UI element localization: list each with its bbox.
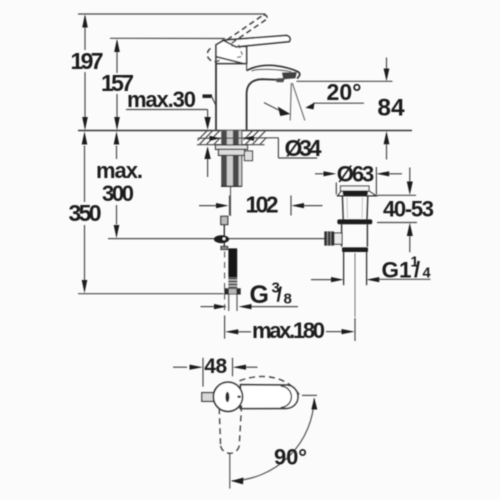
max.30 arrow below deck pointing up [204, 146, 210, 159]
stream angle arrow with tail [264, 103, 279, 110]
faucet handle pivot wedge [216, 40, 247, 63]
dimension 40-53 [377, 194, 416, 196]
20 deg arrow to stream [305, 103, 314, 110]
dimension G1 1/4 [311, 279, 331, 281]
svg-text:84: 84 [377, 95, 405, 122]
mounting nut [219, 149, 245, 155]
svg-text:max.30: max.30 [127, 87, 196, 112]
svg-text:40-53: 40-53 [383, 197, 434, 222]
svg-text:350: 350 [69, 200, 102, 226]
dashed cartridge hidden line [232, 45, 243, 58]
waste locknut [337, 219, 372, 224]
dimension 102 [199, 205, 217, 207]
reference line top (197 level) [78, 13, 266, 15]
dashed handle butt arc [207, 49, 219, 62]
faucet body right edge and spout underside [246, 64, 248, 71]
spout outlet reference line (84 top) [297, 80, 393, 82]
svg-text:90°: 90° [274, 445, 307, 470]
centerline below dashed handle [229, 454, 231, 489]
dimension diameter 34 leader [198, 137, 279, 140]
aerator [282, 72, 297, 79]
water stream lines [290, 83, 291, 121]
deck hatching left [198, 131, 208, 141]
svg-text:G: G [250, 281, 269, 309]
dimension 84 vertical line [386, 58, 388, 69]
dimension 197 vertical line [84, 16, 86, 50]
dimension diameter 63 [315, 173, 324, 175]
rod clamp ball [214, 235, 229, 243]
svg-text:4: 4 [423, 266, 431, 282]
waste plug cap [341, 186, 370, 191]
lever tip reference line [302, 394, 317, 396]
waste tailpipe [343, 252, 345, 285]
handle top-view lever [240, 385, 298, 409]
waste lower body [341, 224, 343, 247]
faucet body left edge [215, 64, 217, 130]
dimension max300 vertical line [116, 146, 118, 160]
svg-text:Ø34: Ø34 [285, 135, 322, 161]
svg-text:Ø63: Ø63 [337, 162, 375, 187]
pull rod bottom cap [221, 246, 228, 249]
flexible hose (black) [228, 248, 237, 277]
pull rod [223, 225, 225, 247]
max.30 underline and down arrow to deck [126, 109, 208, 111]
reference line 157 level [110, 37, 225, 39]
pop-up rod horizontal line / max300 reference [108, 238, 325, 240]
handle top-view knob [213, 382, 242, 411]
pop-up lever block [334, 233, 342, 244]
20 deg underline [313, 102, 364, 104]
tailpipe centerline [354, 253, 356, 317]
dashed centerline below rod [224, 252, 226, 315]
deck hatching right [244, 131, 253, 140]
svg-text:102: 102 [246, 192, 279, 218]
dimension G3/8 arrows [201, 306, 215, 308]
rod guide tab [245, 151, 253, 161]
svg-text:max.180: max.180 [252, 318, 325, 343]
faucet spout top [247, 65, 300, 78]
350 reference line (hose end level) [78, 293, 224, 295]
svg-text:20°: 20° [327, 79, 362, 105]
dashed handle position down [219, 408, 220, 446]
faucet centerline below shank [230, 187, 232, 217]
threaded shank below deck [221, 131, 242, 187]
dimension 350 vertical line [84, 146, 86, 203]
90 degree arc [232, 398, 315, 481]
waste flange [338, 191, 377, 196]
svg-text:/: / [414, 257, 420, 282]
max.30 leader to faucet body [203, 94, 213, 98]
faucet handle lever (rest position) [224, 35, 291, 46]
waste upper body [341, 196, 344, 220]
pull rod top knob [221, 216, 228, 224]
svg-text:300: 300 [102, 181, 134, 206]
hose knurled section [228, 277, 237, 288]
dashed swing outline above lever [240, 376, 300, 395]
dimension 157 vertical line [116, 41, 118, 73]
dashed raised handle [227, 15, 263, 40]
hose G3/8 nut [224, 288, 240, 294]
G3/8 nipple [228, 295, 230, 312]
mounting washer [216, 145, 248, 149]
svg-text:48: 48 [204, 355, 227, 378]
svg-text:max.: max. [96, 158, 143, 183]
handle top-view left nub [202, 393, 214, 402]
deck underside line [197, 144, 265, 146]
svg-text:197: 197 [71, 48, 104, 74]
deck / counter line [78, 130, 412, 132]
dimension max.180 [224, 316, 226, 339]
svg-text:/: / [277, 285, 283, 307]
svg-text:8: 8 [284, 291, 292, 308]
svg-text:G1: G1 [382, 258, 412, 283]
pop-up lever knurled nut [324, 231, 334, 245]
waste bottom ring [342, 247, 368, 252]
